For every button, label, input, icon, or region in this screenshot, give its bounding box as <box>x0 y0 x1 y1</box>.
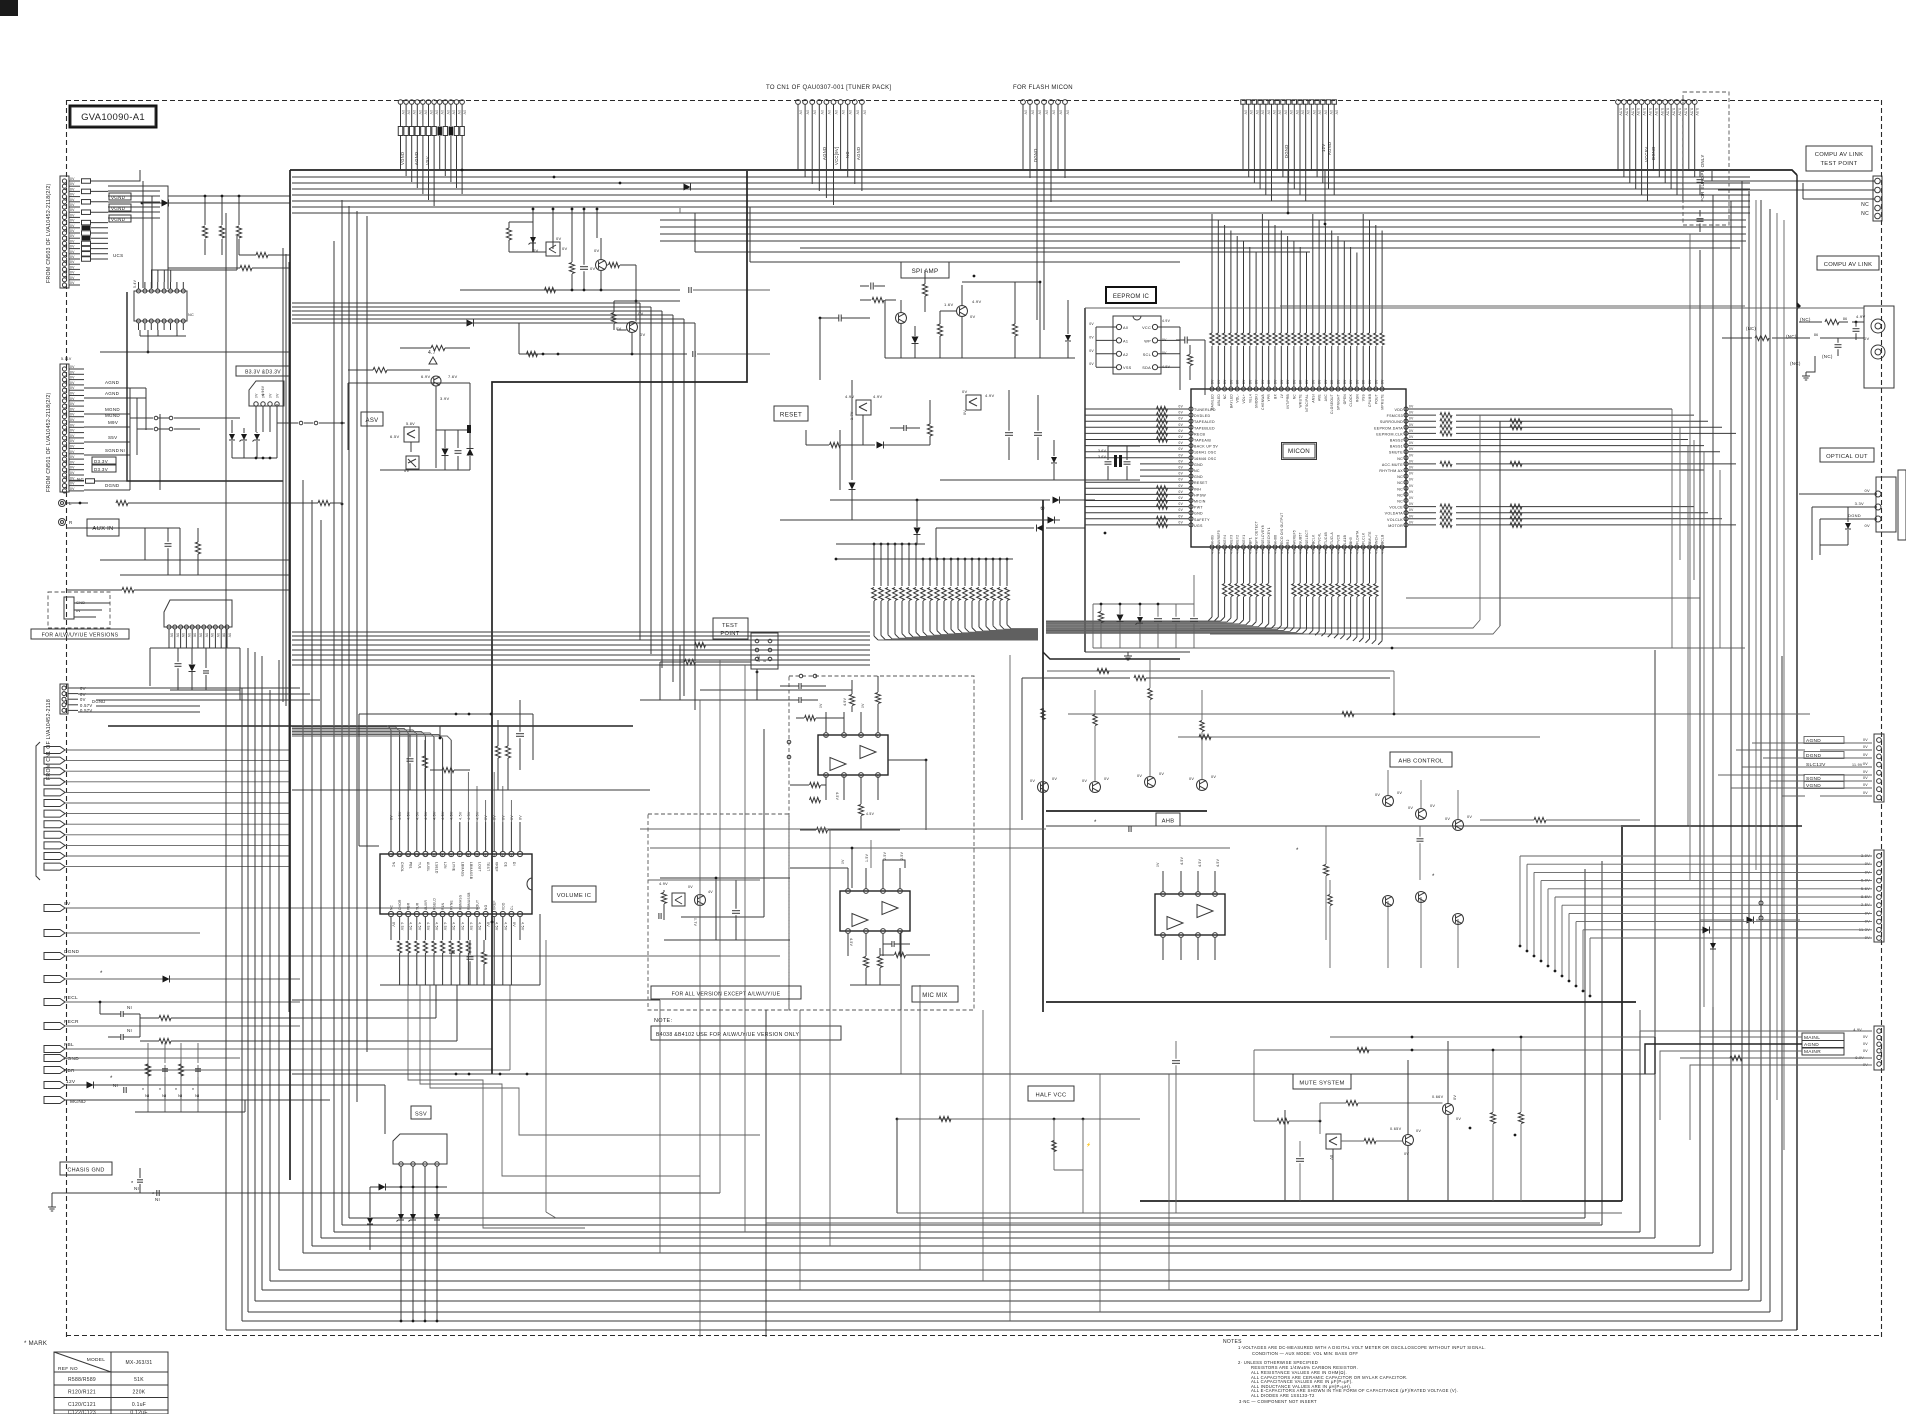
svg-text:YPR: YPR <box>1267 394 1271 402</box>
svg-text:D3.3V: D3.3V <box>94 467 108 472</box>
opamps inside upper mic IC <box>860 746 876 759</box>
svg-text:0V: 0V <box>512 922 516 927</box>
svg-text:NC: NC <box>1397 487 1403 491</box>
svg-text:0V: 0V <box>594 248 600 253</box>
svg-text:0V: 0V <box>813 110 817 115</box>
svg-text:0V: 0V <box>1368 379 1372 384</box>
diode to left on y323 <box>467 320 474 327</box>
svg-text:0V: 0V <box>562 246 568 251</box>
MIC MIX label box <box>912 986 958 1002</box>
svg-text:4.5V: 4.5V <box>435 922 439 931</box>
svg-text:VOL+: VOL+ <box>1242 394 1246 403</box>
svg-text:0V: 0V <box>827 110 831 115</box>
chasis gnd wiring <box>52 1192 720 1194</box>
svg-text:0V: 0V <box>70 476 75 480</box>
svg-text:0V: 0V <box>1159 772 1164 776</box>
svg-text:0V: 0V <box>228 633 232 638</box>
svg-text:EEPROM IC: EEPROM IC <box>1113 294 1150 300</box>
svg-text:NI: NI <box>127 1005 132 1010</box>
svg-text:GND: GND <box>1194 475 1203 479</box>
svg-text:0V: 0V <box>1863 791 1868 795</box>
svg-text:0V: 0V <box>1312 110 1316 115</box>
svg-text:VOL-: VOL- <box>1236 394 1240 403</box>
svg-text:WP: WP <box>1144 339 1151 343</box>
MICON to volume trunk bus horizontals <box>292 631 870 633</box>
svg-text:0V: 0V <box>193 633 197 638</box>
MICON body <box>1191 389 1406 547</box>
svg-text:※: ※ <box>1040 505 1045 512</box>
horiz resistors row <box>256 252 268 257</box>
svg-text:0V: 0V <box>501 815 505 820</box>
mid horizontal through mic area <box>650 847 1230 849</box>
volume bottom pins <box>388 911 393 916</box>
svg-text:0V: 0V <box>1179 405 1184 409</box>
svg-text:5: 5 <box>476 853 478 857</box>
svg-text:RECR: RECR <box>64 1019 79 1025</box>
bottom long horizontals <box>897 1212 1622 1214</box>
svg-text:R2: R2 <box>1286 539 1290 544</box>
micon right wires vertical collectors <box>1479 415 1481 620</box>
micon right wires second resistor column <box>1510 419 1522 424</box>
mute resistors verticals <box>1490 1113 1495 1124</box>
svg-text:0V: 0V <box>440 110 444 115</box>
svg-text:CLOSEOUT: CLOSEOUT <box>1330 394 1334 414</box>
svg-text:0V: 0V <box>799 110 803 115</box>
mic amp IC lower <box>840 891 910 931</box>
svg-text:0V: 0V <box>1052 110 1056 115</box>
svg-text:0V: 0V <box>70 203 75 207</box>
ASV diodes and caps <box>435 386 437 415</box>
svg-text:0V: 0V <box>70 245 75 249</box>
svg-text:KEY4: KEY4 <box>1223 535 1227 544</box>
svg-text:4.5V: 4.5V <box>458 811 462 820</box>
main out wires <box>1640 1030 1872 1032</box>
svg-text:4.5V: 4.5V <box>409 922 413 931</box>
svg-text:2.5V: 2.5V <box>883 851 887 860</box>
FOR A/LW/UY/UE VERSIONS label <box>31 629 129 639</box>
svg-text:0.5V: 0.5V <box>1683 108 1687 116</box>
svg-text:B4038 &B4102 USE FOR A/LW/UY/U: B4038 &B4102 USE FOR A/LW/UY/UE VERSION … <box>656 1032 800 1038</box>
diode on CN503 line <box>142 202 290 204</box>
svg-text:ABLED: ABLED <box>1217 394 1221 406</box>
svg-text:0V: 0V <box>1162 351 1167 355</box>
svg-text:0V: 0V <box>1305 379 1309 384</box>
svg-text:VOLCE: VOLCE <box>1389 506 1403 510</box>
svg-text:LA1B: LA1B <box>1343 535 1347 544</box>
svg-text:NC: NC <box>1397 500 1403 504</box>
svg-text:VREF: VREF <box>495 862 499 872</box>
svg-text:TVC4L: TVC4L <box>1318 533 1322 544</box>
svg-text:0V: 0V <box>70 466 75 470</box>
svg-text:SCL: SCL <box>1143 353 1151 357</box>
svg-text:8: 8 <box>442 853 444 857</box>
svg-text:A2: A2 <box>1123 353 1128 357</box>
backup circuit <box>1093 603 1194 605</box>
svg-text:0V: 0V <box>70 450 75 454</box>
svg-text:INT/PRB: INT/PRB <box>1286 394 1290 409</box>
svg-text:4.5V: 4.5V <box>478 922 482 931</box>
volume right side caps <box>516 733 524 735</box>
12V MGND pins <box>44 1082 65 1089</box>
svg-text:0V: 0V <box>1179 447 1184 451</box>
svg-text:0.66V: 0.66V <box>1432 1095 1444 1099</box>
svg-text:0V: 0V <box>1179 496 1184 500</box>
svg-text:5.8V: 5.8V <box>406 422 415 426</box>
svg-text:0V: 0V <box>1409 447 1414 451</box>
svg-text:DGND: DGND <box>105 483 120 488</box>
svg-text:0V: 0V <box>70 365 75 369</box>
svg-text:NI: NI <box>195 1093 200 1098</box>
svg-text:4.9V: 4.9V <box>1856 314 1865 319</box>
test point pins right edge <box>1873 176 1882 221</box>
svg-text:0V: 0V <box>1329 1155 1333 1160</box>
svg-text:3.6V: 3.6V <box>1098 455 1107 459</box>
svg-text:0V: 0V <box>70 402 75 406</box>
svg-text:BX: BX <box>1274 393 1278 398</box>
svg-text:CHENWA: CHENWA <box>1261 393 1265 409</box>
micon bottom merge bundle to left <box>1046 620 1221 622</box>
svg-text:12V: 12V <box>1321 144 1326 152</box>
mic lower wires <box>790 867 848 869</box>
svg-text:0V: 0V <box>1179 429 1184 433</box>
svg-text:SECKEY1: SECKEY1 <box>1267 527 1271 544</box>
SSV surrounding verticals <box>384 1090 386 1134</box>
svg-text:8: 8 <box>467 853 469 857</box>
small contacts row <box>154 416 158 420</box>
bundle B from trunk to center <box>292 302 640 304</box>
svg-text:0V: 0V <box>1409 435 1414 439</box>
svg-text:0V: 0V <box>1323 110 1327 115</box>
branch rail y290 <box>460 289 680 291</box>
svg-text:0V: 0V <box>1179 508 1184 512</box>
svg-text:ACC.MUTE: ACC.MUTE <box>1382 463 1403 467</box>
svg-text:4V: 4V <box>708 890 713 894</box>
mute long rails <box>1330 1036 1655 1038</box>
svg-text:0V: 0V <box>1249 110 1253 115</box>
svg-text:0V: 0V <box>1261 379 1265 384</box>
COMPU AV LINK TEST POINT label box <box>1806 146 1872 171</box>
svg-text:4.5V: 4.5V <box>452 922 456 931</box>
svg-text:6.5V: 6.5V <box>390 434 399 439</box>
svg-text:0V: 0V <box>70 193 75 197</box>
right lower fan verticals <box>1519 856 1521 946</box>
svg-text:VGND: VGND <box>400 152 405 165</box>
svg-text:0V: 0V <box>1082 779 1087 783</box>
11-pin connector mid-left <box>164 600 232 627</box>
svg-text:0.7V: 0.7V <box>693 918 697 927</box>
svg-text:MOTOR: MOTOR <box>1388 524 1403 528</box>
svg-text:TEST POINT: TEST POINT <box>1820 161 1857 167</box>
svg-text:5.11V: 5.11V <box>61 357 72 361</box>
keyscan resistor bank verticals <box>873 544 875 586</box>
svg-text:0V: 0V <box>70 239 75 243</box>
svg-text:0V: 0V <box>70 482 75 486</box>
svg-text:4.5V: 4.5V <box>426 922 430 931</box>
svg-text:0V: 0V <box>70 271 75 275</box>
svg-text:BASS2: BASS2 <box>1390 439 1403 443</box>
AHB transistor risers <box>1042 720 1044 782</box>
svg-text:0V: 0V <box>1286 379 1290 384</box>
svg-text:0.5V: 0.5V <box>1666 108 1670 116</box>
svg-text:0V: 0V <box>1409 472 1414 476</box>
CHASIS GND label box <box>60 1162 112 1175</box>
svg-text:0.5V: 0.5V <box>1678 108 1682 116</box>
svg-text:BH5: BH5 <box>1349 537 1353 544</box>
svg-text:TUCLA: TUCLA <box>1330 531 1334 544</box>
svg-text:VSS: VSS <box>1123 366 1132 370</box>
svg-text:MIC MIX: MIC MIX <box>922 993 947 999</box>
svg-text:0V: 0V <box>1089 335 1094 339</box>
svg-text:12V: 12V <box>66 1079 76 1085</box>
svg-text:TUR: TUR <box>415 902 419 910</box>
test point wires <box>695 642 706 647</box>
OPTICAL OUT label box <box>1820 448 1874 462</box>
mute area resistor near connector <box>1730 1055 1742 1060</box>
svg-text:4.5V: 4.5V <box>443 922 447 931</box>
CN503 wire field to right <box>108 170 140 181</box>
svg-text:INCH: INCH <box>1374 535 1378 544</box>
square conn long drops <box>1287 171 1289 213</box>
svg-text:SGND: SGND <box>105 448 120 453</box>
svg-text:4: 4 <box>485 853 487 857</box>
svg-text:13: 13 <box>406 853 410 857</box>
IC (16-pin) upper left <box>134 291 187 321</box>
svg-text:DI: DI <box>512 862 516 866</box>
svg-text:AHB: AHB <box>1162 819 1175 825</box>
svg-text:VDD: VDD <box>1395 408 1404 412</box>
svg-text:NC: NC <box>1397 493 1403 497</box>
svg-text:0V: 0V <box>1374 379 1378 384</box>
beads on CN503 rows <box>82 179 91 184</box>
IC16 bottom wires <box>140 335 186 337</box>
svg-text:LBMASS: LBMASS <box>460 862 464 877</box>
svg-text:0V: 0V <box>1038 110 1042 115</box>
svg-text:0V: 0V <box>1416 1129 1421 1133</box>
top horizontal bus band <box>290 170 1797 175</box>
svg-text:0V: 0V <box>210 633 214 638</box>
svg-text:RYNE: RYNE <box>450 900 454 910</box>
svg-text:SMUTE: SMUTE <box>1389 451 1403 455</box>
svg-text:KEY1: KEY1 <box>1242 535 1246 544</box>
svg-text:0V: 0V <box>1179 435 1184 439</box>
test point connector <box>751 633 778 669</box>
svg-text:0V: 0V <box>862 110 866 115</box>
svg-text:MGND: MGND <box>105 413 120 418</box>
svg-text:⚡: ⚡ <box>1086 1142 1091 1147</box>
volume top pins <box>388 851 393 856</box>
svg-text:0V: 0V <box>556 236 562 241</box>
svg-text:0V: 0V <box>70 370 75 374</box>
svg-text:TAPEBLED: TAPEBLED <box>1194 426 1215 430</box>
svg-text:NC: NC <box>1861 202 1869 208</box>
wires connector1 to bus <box>400 158 402 170</box>
volume ic pin risers going up <box>467 772 469 822</box>
diode on bus mid <box>684 184 691 191</box>
svg-text:0V: 0V <box>834 110 838 115</box>
svg-text:R588/R589: R588/R589 <box>68 1377 96 1383</box>
svg-text:0V: 0V <box>1409 496 1414 500</box>
svg-text:AGND: AGND <box>64 1056 79 1062</box>
svg-text:LBMASSB: LBMASSB <box>469 862 473 879</box>
mic mix outer dashed box <box>789 676 974 1010</box>
svg-text:DGND: DGND <box>1284 144 1289 158</box>
svg-text:16: 16 <box>415 853 419 857</box>
MICON label box <box>1283 444 1315 458</box>
svg-text:0V: 0V <box>407 110 411 115</box>
svg-text:0V: 0V <box>216 633 220 638</box>
svg-text:0V: 0V <box>70 407 75 411</box>
svg-text:0V: 0V <box>70 224 75 228</box>
diodes near group E <box>1053 497 1060 504</box>
svg-text:0V: 0V <box>70 418 75 422</box>
svg-text:FSMCS3: FSMCS3 <box>1387 414 1403 418</box>
AHB CONTROL label box <box>1390 752 1452 767</box>
svg-text:A0: A0 <box>1123 326 1128 330</box>
feeder dots <box>835 558 838 561</box>
svg-text:0V: 0V <box>1156 862 1160 867</box>
VOLUME IC body <box>380 854 532 914</box>
svg-text:MGND: MGND <box>105 407 120 412</box>
svg-text:AUXL: AUXL <box>426 862 430 872</box>
svg-text:0V: 0V <box>269 393 273 398</box>
svg-text:0V: 0V <box>590 266 596 271</box>
svg-text:PBR: PBR <box>407 902 411 910</box>
svg-text:0V: 0V <box>1292 379 1296 384</box>
svg-text:RBMASSB: RBMASSB <box>467 892 471 910</box>
svg-text:LSELD: LSELD <box>435 862 439 874</box>
svg-text:0V: 0V <box>1409 490 1414 494</box>
svg-text:0V: 0V <box>70 487 75 491</box>
svg-text:0V: 0V <box>1266 110 1270 115</box>
mute opto <box>1326 1134 1341 1149</box>
svg-text:0V: 0V <box>392 922 396 927</box>
svg-text:FOR EUROPE ONLY: FOR EUROPE ONLY <box>1700 154 1705 201</box>
svg-text:RHYTHM AX: RHYTHM AX <box>1379 469 1403 473</box>
svg-text:0V: 0V <box>70 460 75 464</box>
thick trunk x492 with corner from x747 <box>492 171 747 1074</box>
svg-text:0V: 0V <box>70 471 75 475</box>
EEPROM chip <box>1113 316 1161 374</box>
rca feed resistors <box>1797 302 1801 310</box>
right vertical trunk bundle extra <box>1755 200 1757 870</box>
svg-text:* MARK: * MARK <box>24 1341 47 1347</box>
AHB opamp IC <box>1155 894 1225 935</box>
svg-text:FOR A/LW/UY/UE VERSIONS: FOR A/LW/UY/UE VERSIONS <box>42 633 119 639</box>
svg-text:0V: 0V <box>841 110 845 115</box>
svg-text:0V: 0V <box>1863 776 1868 780</box>
svg-text:0V: 0V <box>1408 806 1413 810</box>
svg-text:0V: 0V <box>1409 411 1414 415</box>
svg-text:0V: 0V <box>1278 110 1282 115</box>
svg-text:0V: 0V <box>418 110 422 115</box>
svg-text:0V: 0V <box>222 633 226 638</box>
svg-text:0V: 0V <box>819 703 823 708</box>
MICON bottom pins <box>1210 545 1214 549</box>
svg-text:VCC[9V]: VCC[9V] <box>834 147 839 165</box>
svg-text:AVE: AVE <box>1318 394 1322 401</box>
svg-text:V5V: V5V <box>425 156 430 165</box>
svg-text:VCC: VCC <box>1142 326 1151 330</box>
diode on 11.3V wire <box>1703 927 1710 934</box>
svg-text:0V: 0V <box>1397 791 1402 795</box>
ASV regulator opto <box>404 427 419 442</box>
long mid horizontals <box>695 251 1310 253</box>
ASV transistor <box>431 376 441 386</box>
svg-text:INH: INH <box>1194 487 1201 491</box>
svg-text:2: 2 <box>860 735 862 739</box>
svg-text:0V: 0V <box>1409 459 1414 463</box>
svg-text:0V: 0V <box>1375 793 1380 797</box>
svg-text:0V: 0V <box>1236 379 1240 384</box>
svg-text:0V: 0V <box>1430 804 1435 808</box>
svg-text:*: * <box>100 971 103 977</box>
svg-text:0V: 0V <box>70 434 75 438</box>
svg-text:1: 1 <box>877 735 879 739</box>
svg-text:0V: 0V <box>1409 405 1414 409</box>
svg-text:0V: 0V <box>1179 490 1184 494</box>
svg-text:TUL: TUL <box>417 862 421 869</box>
svg-text:DGND: DGND <box>1848 513 1861 518</box>
svg-text:MICIN: MICIN <box>1194 500 1206 504</box>
svg-text:0V: 0V <box>484 815 488 820</box>
wire y598 from micon right <box>1406 597 1700 599</box>
svg-text:0V: 0V <box>1324 379 1328 384</box>
bottom bus staircase corners <box>226 1329 1797 1331</box>
svg-text:0V: 0V <box>1179 417 1184 421</box>
svg-text:0V: 0V <box>1162 338 1167 342</box>
svg-text:6.9V: 6.9V <box>421 374 430 379</box>
svg-text:MUTE SYSTEM: MUTE SYSTEM <box>1299 1081 1344 1087</box>
vertical RC pairs <box>147 1043 149 1063</box>
svg-text:4.9V: 4.9V <box>1162 365 1171 369</box>
svg-text:ROUT: ROUT <box>476 900 480 910</box>
svg-text:EEPROM.DATA: EEPROM.DATA <box>1374 426 1403 430</box>
SSV bottom dots <box>400 1320 403 1323</box>
svg-text:0V: 0V <box>841 859 845 864</box>
FOR EUROPE ONLY dashed box <box>1683 92 1729 225</box>
thick MGND trunk corner <box>127 292 283 481</box>
AHB transistor row 1 <box>1038 782 1049 793</box>
svg-text:4.5V: 4.5V <box>1198 858 1202 867</box>
branch rail y354 <box>519 353 687 355</box>
svg-text:0V: 0V <box>861 703 865 708</box>
svg-text:0V: 0V <box>1217 379 1221 384</box>
svg-text:4.9V: 4.9V <box>873 394 882 399</box>
svg-text:4.5V: 4.5V <box>1180 856 1184 865</box>
svg-text:GND: GND <box>1194 512 1203 516</box>
flash micon long drop wires <box>1036 170 1038 320</box>
svg-text:0V: 0V <box>80 697 86 702</box>
svg-text:0V: 0V <box>70 376 75 380</box>
svg-text:0V: 0V <box>1229 379 1233 384</box>
svg-text:0V: 0V <box>70 234 75 238</box>
svg-text:*: * <box>192 1088 194 1094</box>
svg-text:VOLCLK: VOLCLK <box>1387 518 1403 522</box>
svg-text:0V: 0V <box>640 332 646 337</box>
svg-text:4.5V: 4.5V <box>495 922 499 931</box>
svg-text:3·NC — COMPONENT NOT INSERT: 3·NC — COMPONENT NOT INSERT <box>1239 1399 1317 1404</box>
svg-text:0V: 0V <box>1255 110 1259 115</box>
svg-text:RECL: RECL <box>64 995 78 1001</box>
svg-text:AGND: AGND <box>856 147 861 160</box>
mic amp IC upper <box>818 735 888 775</box>
svg-text:DGND: DGND <box>1033 148 1038 162</box>
svg-text:MODEL: MODEL <box>87 1357 106 1363</box>
power branch circuit (top middle-left) <box>532 209 534 238</box>
svg-text:4.5V: 4.5V <box>521 922 525 931</box>
svg-text:OPTICAL OUT: OPTICAL OUT <box>1826 454 1868 460</box>
eeprom cap <box>1184 337 1186 344</box>
